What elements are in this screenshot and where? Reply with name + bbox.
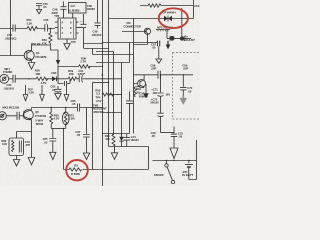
wire b-plus bus y42.6 <box>103 42 161 44</box>
resistor R70 top right <box>140 0 194 19</box>
node arrow feed <box>56 50 60 79</box>
wire strip to Q6 <box>167 8 191 38</box>
capacitor C56 <box>45 25 48 32</box>
b-plus arrow c <box>64 85 69 101</box>
b-plus bold arrow x168 <box>166 41 171 50</box>
capacitor C64 <box>13 75 15 83</box>
ground emitter chain <box>28 120 35 165</box>
capacitor C66 on bus <box>77 104 79 112</box>
wire battery row y160 <box>153 160 197 162</box>
wire bottom long y169 <box>64 147 149 170</box>
wire Q4 collector <box>32 45 51 51</box>
b-plus arrow a <box>23 85 28 101</box>
capacitor C-gnd x58 <box>55 86 62 100</box>
node dots y112 <box>108 112 114 113</box>
ground Q4 emitter <box>28 60 35 69</box>
jack MK2 <box>0 112 6 120</box>
wire down to R65 row <box>63 129 65 170</box>
capacitor C60 electrolytic <box>79 14 109 49</box>
transistor Q8 <box>144 28 150 34</box>
wire step y82 <box>93 82 109 84</box>
dashed chassis boundary <box>173 53 201 120</box>
switch S1 <box>165 161 175 184</box>
transformer T1 <box>9 132 32 156</box>
wire H y94 <box>110 94 122 96</box>
wire H y133 tops <box>103 133 130 135</box>
wire vertical x108 <box>108 0 110 147</box>
wire row A <box>9 78 122 80</box>
capacitor C75 <box>126 92 133 134</box>
wire no-connection branch <box>122 32 148 45</box>
paper background <box>0 0 200 186</box>
red highlight ellipse bottom <box>66 160 88 180</box>
gray pointer arrow <box>180 95 188 105</box>
diode CR3 <box>52 76 56 81</box>
node junction dots misc <box>50 28 190 161</box>
capacitor C70 column x183 <box>180 75 186 95</box>
resistor R64 <box>134 87 140 98</box>
IC pin numbers <box>62 20 73 35</box>
transistor Q4 <box>24 50 34 61</box>
capacitor C62 bypass <box>58 79 70 86</box>
ground arrow to switch row <box>170 137 178 159</box>
diode D3 <box>119 134 123 147</box>
resistor R59 <box>68 77 77 80</box>
capacitor C71 electrolytic double <box>157 75 163 133</box>
resistor R53 <box>49 29 58 51</box>
capacitor C74 <box>124 134 130 147</box>
capacitor C67 with ground <box>83 108 90 160</box>
capacitor C55 with ground <box>36 4 42 14</box>
resistor R54 <box>27 27 38 31</box>
capacitor C68 on wire <box>158 71 160 79</box>
wire bus tap x92 <box>92 83 94 170</box>
terminal strip <box>156 30 170 32</box>
transistor Q6 blob <box>170 36 175 41</box>
wire row R58 <box>58 66 103 68</box>
capacitor C61 electrolytic <box>79 75 82 82</box>
red highlight ellipse top <box>159 8 188 28</box>
resistor R63 <box>102 93 113 96</box>
wire speaker row y74.8 <box>133 74 193 76</box>
paper mottle <box>0 0 200 186</box>
transistor Q5 <box>23 110 33 121</box>
resistor R58 <box>79 65 91 68</box>
resistor R60 <box>50 108 53 129</box>
wire H y112 <box>103 112 122 114</box>
b-plus solid arrow x146 <box>143 84 149 98</box>
thermistor RT5 <box>62 108 69 129</box>
node junction dots row A <box>28 74 102 79</box>
wire signal row y28 <box>0 28 55 30</box>
capacitor C59 top <box>95 0 101 29</box>
wire step y51.3 <box>96 51 114 53</box>
wire step y62.6 <box>96 43 130 63</box>
jack MK1 <box>0 74 9 83</box>
wire mid rail x102 <box>102 0 104 186</box>
capacitor C72 <box>171 127 177 137</box>
IC pin bars <box>60 19 73 38</box>
wire bus row B y107.5 <box>31 108 102 110</box>
transistor Q7 <box>134 75 146 89</box>
wire H y146.5 bottom <box>109 146 149 148</box>
wire step y54 <box>93 49 134 55</box>
wire H y132.5 <box>161 132 175 134</box>
wire vertical x121.5 <box>121 63 123 137</box>
wire base row Q4 <box>0 55 24 57</box>
ground mid-bottom <box>111 147 117 160</box>
IC2 label box <box>69 3 87 14</box>
ground under IC <box>64 44 70 50</box>
diode CR6 blob <box>180 36 184 41</box>
IC U1 LM380 box <box>55 13 79 44</box>
diode CR5 pair <box>164 16 172 22</box>
wire input bus vertical left <box>10 0 12 56</box>
wire vertical x113.5 <box>113 52 115 136</box>
capacitor C63 <box>13 25 15 32</box>
wire row B base <box>6 115 24 117</box>
capacitor C67 on bus <box>156 41 162 64</box>
resistor R56 <box>36 77 48 80</box>
ground T1 <box>13 156 19 167</box>
wire top bus y18.5 <box>109 18 194 20</box>
wire vertical x133 <box>133 19 135 134</box>
capacitor C-row-B <box>17 112 19 120</box>
capacitor C65 with ground <box>49 129 56 160</box>
resistor R61 <box>112 134 115 147</box>
resistor R65 circled <box>69 168 82 171</box>
battery BT1 <box>185 140 197 180</box>
capacitor C58 <box>61 2 67 19</box>
wire R60 RT5 bottom <box>51 128 65 130</box>
b-plus arrow b <box>40 85 45 101</box>
